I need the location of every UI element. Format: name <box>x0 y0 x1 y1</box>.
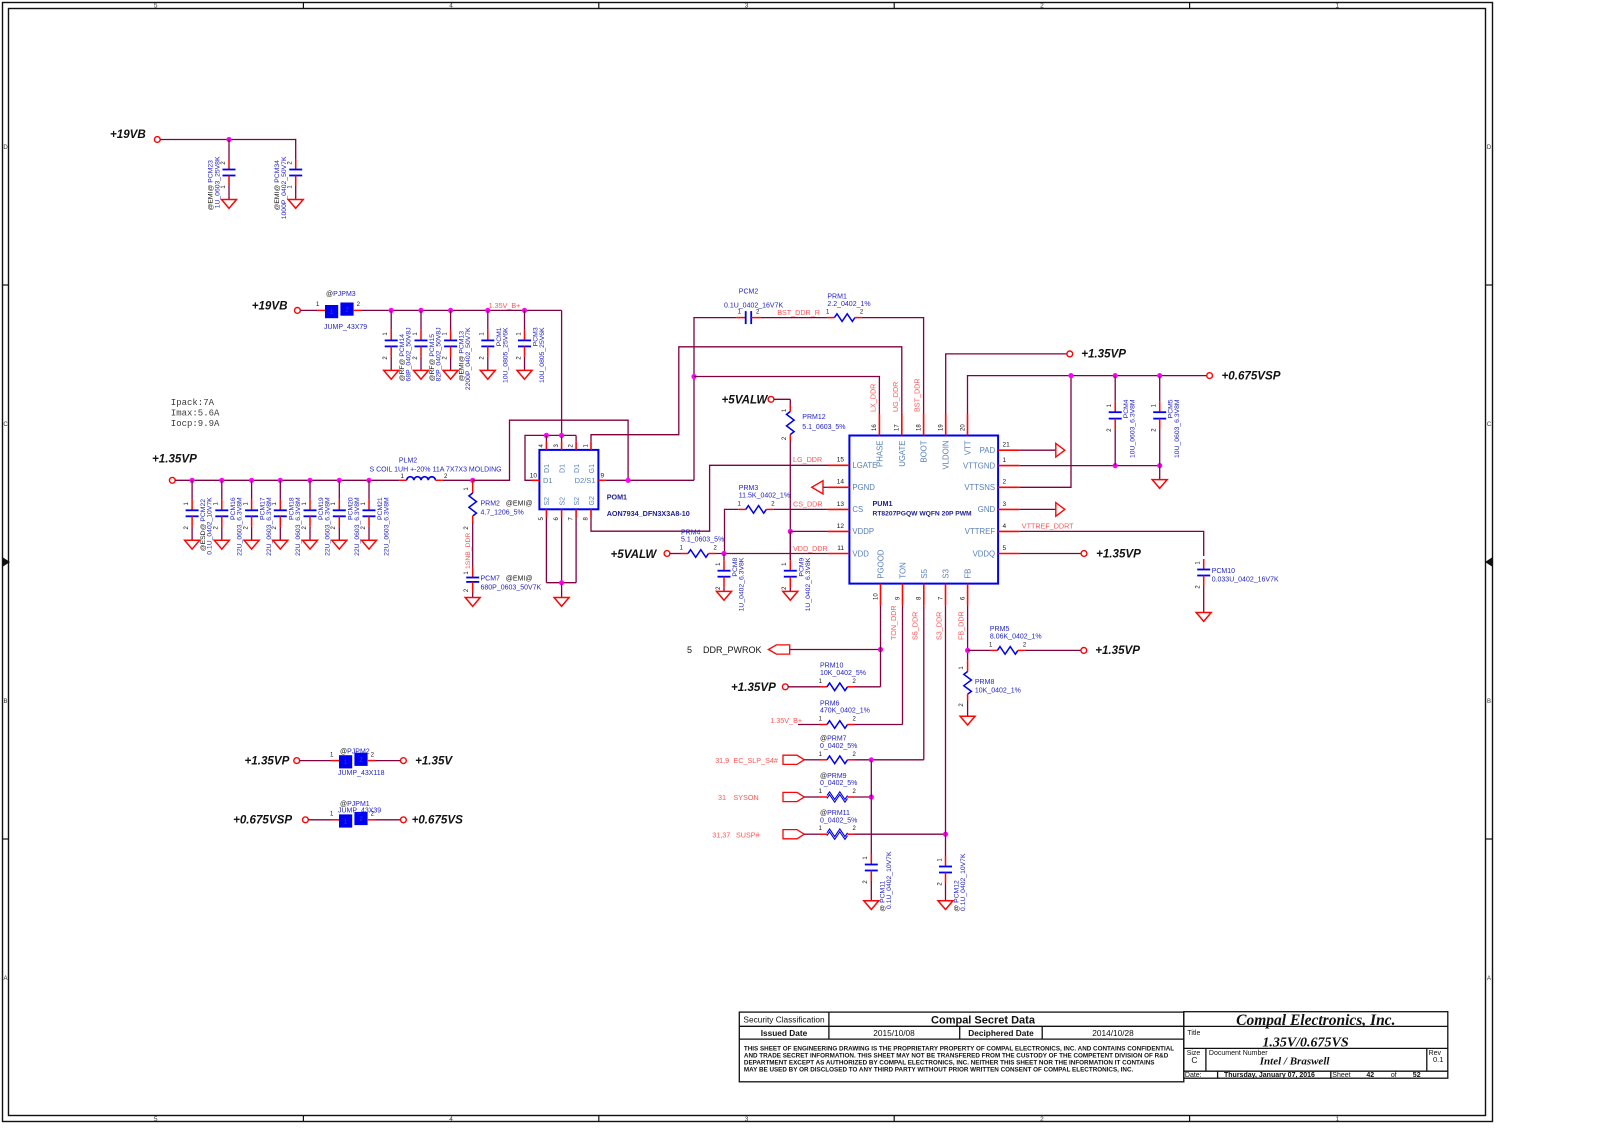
svg-text:5.1_0603_5%: 5.1_0603_5% <box>681 537 724 544</box>
svg-text:@PRM11: @PRM11 <box>820 810 850 817</box>
svg-text:D: D <box>1487 145 1492 151</box>
junction <box>1113 463 1118 468</box>
svg-text:3: 3 <box>745 1116 749 1123</box>
ground <box>332 540 347 549</box>
wire TON <box>902 605 904 724</box>
svg-text:CS: CS <box>852 505 863 514</box>
wire PCM9 branch <box>789 531 791 560</box>
ground <box>214 540 229 549</box>
svg-text:+1.35VP: +1.35VP <box>1095 644 1140 657</box>
capacitor PCM4 <box>1114 376 1116 402</box>
resistor PRM8 <box>967 660 969 671</box>
svg-text:11.5K_0402_1%: 11.5K_0402_1% <box>739 493 790 500</box>
svg-text:0.1U_0402_10V7K: 0.1U_0402_10V7K <box>207 497 214 555</box>
wire PGND arrow <box>823 486 828 488</box>
ground <box>288 200 303 209</box>
junction <box>307 478 312 483</box>
svg-text:Sheet: Sheet <box>1332 1072 1350 1079</box>
junction <box>522 308 527 313</box>
wire <box>443 479 473 481</box>
svg-text:Compal Secret Data: Compal Secret Data <box>931 1015 1036 1027</box>
svg-text:5: 5 <box>154 1116 158 1123</box>
wire D1 to pin10 <box>525 435 546 480</box>
transistor POM1 <box>539 450 598 509</box>
svg-text:PLM2: PLM2 <box>399 457 417 464</box>
capacitor PCM20 <box>338 480 340 500</box>
zone ticks top <box>302 3 304 9</box>
svg-text:+0.675VSP: +0.675VSP <box>1222 369 1281 382</box>
wire S2 to ground <box>545 517 547 583</box>
wire VTTGND <box>1020 465 1160 467</box>
svg-text:FB_DDR: FB_DDR <box>957 611 966 640</box>
svg-text:PGND: PGND <box>852 483 875 492</box>
zone ticks right <box>1486 284 1493 286</box>
svg-text:LG_DDR: LG_DDR <box>793 455 822 464</box>
ground <box>414 370 429 379</box>
svg-text:Intel / Braswell: Intel / Braswell <box>1259 1056 1331 1068</box>
svg-text:TON: TON <box>899 562 908 578</box>
capacitor PCM21 <box>368 480 370 500</box>
wire <box>300 760 331 762</box>
title block security table <box>739 1012 1184 1082</box>
svg-text:1.35V/0.675VS: 1.35V/0.675VS <box>1262 1035 1349 1050</box>
capacitor PCM18 <box>279 480 281 500</box>
svg-text:S2: S2 <box>559 497 566 506</box>
svg-text:4: 4 <box>449 1116 453 1123</box>
svg-text:Compal Electronics, Inc.: Compal Electronics, Inc. <box>1236 1012 1395 1029</box>
svg-text:VDD: VDD <box>852 549 869 558</box>
svg-text:G2: G2 <box>589 496 596 505</box>
svg-text:10: 10 <box>873 593 879 600</box>
svg-text:21: 21 <box>1003 442 1011 449</box>
svg-text:D2/S1: D2/S1 <box>575 476 596 485</box>
jumper PJPM2 <box>339 755 352 768</box>
junction <box>544 433 549 438</box>
svg-text:Issued Date: Issued Date <box>761 1028 808 1038</box>
capacitor PCM34 <box>295 140 297 160</box>
svg-text:12: 12 <box>837 523 845 530</box>
svg-text:2.2_0402_1%: 2.2_0402_1% <box>827 301 870 308</box>
svg-text:2: 2 <box>1003 479 1007 486</box>
svg-text:9: 9 <box>601 473 605 480</box>
svg-text:@PRM7: @PRM7 <box>820 736 847 743</box>
svg-text:22U_0603_6.3V8M: 22U_0603_6.3V8M <box>236 497 243 556</box>
junction <box>878 647 883 652</box>
svg-text:B: B <box>1487 699 1491 705</box>
wire LX <box>473 420 628 480</box>
svg-text:1U_0402_6.3V8K: 1U_0402_6.3V8K <box>739 557 746 611</box>
svg-text:15: 15 <box>837 457 845 464</box>
capacitor PCM23 <box>228 140 230 160</box>
svg-text:PRM2 @EMI@: PRM2 @EMI@ <box>481 501 533 508</box>
junction <box>943 832 948 837</box>
svg-text:POM1: POM1 <box>607 493 627 502</box>
junction <box>190 478 195 483</box>
svg-text:31,37: 31,37 <box>712 830 730 839</box>
junction <box>366 478 371 483</box>
svg-text:@PJPM3: @PJPM3 <box>326 291 356 298</box>
title block company block <box>1184 1012 1448 1078</box>
svg-text:S5_DDR: S5_DDR <box>911 612 920 640</box>
ground <box>1152 480 1167 489</box>
wire <box>670 553 681 555</box>
ground <box>938 901 953 910</box>
jumper PJPM1 <box>339 814 352 827</box>
svg-text:+1.35VP: +1.35VP <box>731 681 776 694</box>
capacitor PCM9 <box>789 531 791 560</box>
svg-text:Thursday, January 07, 2016: Thursday, January 07, 2016 <box>1224 1072 1315 1079</box>
junction <box>559 433 564 438</box>
svg-text:C: C <box>1487 422 1492 428</box>
wire VDDQ <box>1020 553 1081 555</box>
ground <box>185 540 200 549</box>
wire S5 <box>855 759 924 761</box>
svg-text:MAY BE USED BY OR DISCLOSED TO: MAY BE USED BY OR DISCLOSED TO ANY THIRD… <box>744 1066 1134 1073</box>
resistor PRM2 <box>472 480 474 493</box>
svg-text:14: 14 <box>837 479 845 486</box>
junction <box>721 551 726 556</box>
svg-text:31,9: 31,9 <box>715 756 729 765</box>
wire VDDP <box>789 441 791 531</box>
svg-text:S3_DDR: S3_DDR <box>935 612 944 640</box>
ground <box>273 540 288 549</box>
capacitor PCM5 <box>1159 376 1161 402</box>
wire D1 top <box>546 434 576 436</box>
svg-text:8.06K_0402_1%: 8.06K_0402_1% <box>990 634 1042 641</box>
junction <box>559 580 564 585</box>
svg-text:22U_0603_6.3V8M: 22U_0603_6.3V8M <box>384 497 391 556</box>
ground <box>517 370 532 379</box>
svg-text:11: 11 <box>837 545 844 552</box>
svg-text:PRM5: PRM5 <box>990 626 1010 633</box>
wire DDR_PWROK <box>790 649 881 651</box>
svg-text:20: 20 <box>960 424 966 431</box>
svg-text:AON7934_DFN3X3A8-10: AON7934_DFN3X3A8-10 <box>607 509 690 518</box>
wire <box>308 819 331 821</box>
svg-text:C: C <box>3 422 8 428</box>
svg-text:Title: Title <box>1187 1030 1200 1037</box>
junction <box>418 308 423 313</box>
wire +1.35VP rail <box>175 479 399 481</box>
wire PAD arrow <box>1020 449 1056 451</box>
capacitor PCM17 <box>251 480 253 500</box>
capacitor PCM10 <box>1203 559 1205 570</box>
svg-text:0.1U_0402_16V7K: 0.1U_0402_16V7K <box>724 302 783 309</box>
svg-text:JUMP_43X118: JUMP_43X118 <box>338 770 385 777</box>
ground <box>554 598 569 607</box>
svg-text:BOOT: BOOT <box>920 440 929 462</box>
svg-text:@EMI@ PCM34: @EMI@ PCM34 <box>274 160 281 211</box>
svg-text:10U_0805_25V6K: 10U_0805_25V6K <box>502 327 509 383</box>
capacitor PCM7 <box>472 567 474 578</box>
junction <box>470 478 475 483</box>
wire LX to PHASE <box>694 377 879 415</box>
svg-text:13: 13 <box>837 501 845 508</box>
svg-text:THIS SHEET OF ENGINEERING DRAW: THIS SHEET OF ENGINEERING DRAWING IS THE… <box>744 1045 1174 1052</box>
wire <box>855 724 903 726</box>
svg-text:0.033U_0402_16V7K: 0.033U_0402_16V7K <box>1212 577 1279 584</box>
wire VLDOIN <box>946 354 1067 414</box>
wire UGATE <box>591 347 902 442</box>
svg-text:of: of <box>1391 1072 1397 1079</box>
svg-text:10K_0402_1%: 10K_0402_1% <box>975 688 1021 695</box>
svg-text:1SNB_DDR: 1SNB_DDR <box>465 533 472 569</box>
capacitor PCM22 <box>191 480 193 500</box>
wire <box>804 759 820 761</box>
svg-text:D1: D1 <box>543 476 553 485</box>
svg-text:10: 10 <box>530 473 538 480</box>
svg-text:+5VALW: +5VALW <box>722 394 769 407</box>
junction <box>226 137 231 142</box>
svg-text:+1.35VP: +1.35VP <box>245 755 290 768</box>
svg-text:AND TRADE SECRET INFORMATION.: AND TRADE SECRET INFORMATION. THIS SHEET… <box>744 1052 1169 1059</box>
wire 1.35V_B+ trunk <box>561 310 563 435</box>
svg-text:+1.35VP: +1.35VP <box>152 453 197 466</box>
junction <box>448 308 453 313</box>
svg-text:1.35V_B+: 1.35V_B+ <box>489 301 521 310</box>
wire <box>855 796 872 798</box>
capacitor PCM12 <box>945 834 947 856</box>
wire <box>788 686 820 688</box>
ground <box>864 901 879 910</box>
svg-text:VTTGND: VTTGND <box>963 461 995 470</box>
wire S5 tie <box>870 760 872 797</box>
wire <box>472 523 474 567</box>
svg-text:22U_0603_6.3V8M: 22U_0603_6.3V8M <box>295 497 302 556</box>
svg-text:S COIL 1UH +-20% 11A 7X7X3 MOL: S COIL 1UH +-20% 11A 7X7X3 MOLDING <box>370 466 502 473</box>
svg-text:2200P_0402_50V7K: 2200P_0402_50V7K <box>465 327 472 390</box>
svg-text:EC_SLP_S4#: EC_SLP_S4# <box>734 756 778 765</box>
svg-text:1: 1 <box>1335 1116 1339 1123</box>
svg-text:0.1: 0.1 <box>1433 1055 1443 1064</box>
svg-text:52: 52 <box>1413 1072 1421 1079</box>
junction <box>626 478 631 483</box>
svg-text:0.1U_0402_10V7K: 0.1U_0402_10V7K <box>886 851 893 909</box>
junction <box>1157 373 1162 378</box>
svg-text:10U_0805_25V6K: 10U_0805_25V6K <box>539 327 546 383</box>
center marker arrow left <box>3 558 10 567</box>
wire S3 <box>855 833 946 835</box>
svg-text:4: 4 <box>1003 523 1007 530</box>
wire LX riser <box>694 318 736 481</box>
svg-text:VTT: VTT <box>964 440 973 455</box>
svg-text:0_0402_5%: 0_0402_5% <box>820 743 857 750</box>
jumper PJPM3 <box>325 305 338 318</box>
svg-text:+1.35VP: +1.35VP <box>1081 348 1126 361</box>
svg-text:5: 5 <box>154 3 158 10</box>
svg-text:4: 4 <box>449 3 453 10</box>
ground <box>783 591 798 600</box>
center marker arrow right <box>1485 558 1492 567</box>
svg-text:@PJPM2: @PJPM2 <box>340 749 370 756</box>
capacitor PCM1 <box>487 310 489 330</box>
svg-text:CS_DDR: CS_DDR <box>793 499 823 508</box>
svg-text:22U_0603_6.3V8M: 22U_0603_6.3V8M <box>354 497 361 556</box>
svg-text:10U_0603_6.3V8M: 10U_0603_6.3V8M <box>1130 399 1137 458</box>
svg-text:+19VB: +19VB <box>252 300 288 313</box>
svg-text:DEPARTMENT EXCEPT AS AUTHORIZE: DEPARTMENT EXCEPT AS AUTHORIZED BY COMPA… <box>744 1059 1155 1066</box>
svg-text:680P_0603_50V7K: 680P_0603_50V7K <box>481 585 542 592</box>
wire <box>967 701 969 717</box>
svg-text:VDDQ: VDDQ <box>973 549 996 558</box>
wire BOOT <box>862 318 924 414</box>
wire VTTSNS <box>1020 376 1071 488</box>
svg-text:JUMP_43X39: JUMP_43X39 <box>338 807 381 814</box>
svg-text:PRM1: PRM1 <box>827 293 847 300</box>
junction <box>1113 373 1118 378</box>
svg-text:C: C <box>1191 1055 1197 1065</box>
svg-text:LGATE: LGATE <box>852 461 877 470</box>
junction <box>278 478 283 483</box>
svg-text:G1: G1 <box>589 464 596 473</box>
ground <box>222 200 237 209</box>
svg-text:B: B <box>3 699 7 705</box>
wire <box>354 309 362 311</box>
junction <box>389 308 394 313</box>
capacitor PCM15 <box>420 310 422 330</box>
svg-text:Deciphered Date: Deciphered Date <box>968 1028 1034 1038</box>
svg-text:PRM10: PRM10 <box>820 663 843 670</box>
junction <box>219 478 224 483</box>
wire <box>773 508 828 510</box>
svg-text:1: 1 <box>1003 457 1007 464</box>
svg-text:16: 16 <box>872 424 878 431</box>
svg-text:PCM2: PCM2 <box>739 289 759 296</box>
wire VTT +0.675VSP rail <box>968 376 1207 414</box>
svg-text:5: 5 <box>1003 545 1007 552</box>
wire <box>160 139 296 141</box>
wire pin9 LX <box>606 479 694 481</box>
ground <box>465 598 480 607</box>
svg-text:LX_DDR: LX_DDR <box>869 384 878 412</box>
svg-text:PRM6: PRM6 <box>820 700 840 707</box>
svg-text:2: 2 <box>1040 3 1044 10</box>
svg-text:@EMI@ PCM23: @EMI@ PCM23 <box>208 160 215 211</box>
junction <box>965 648 970 653</box>
wire G2 LGATE <box>591 465 842 531</box>
svg-text:5.1_0603_5%: 5.1_0603_5% <box>802 424 845 431</box>
svg-text:D1: D1 <box>574 464 581 473</box>
svg-text:FB: FB <box>964 569 973 579</box>
svg-text:UG_DDR: UG_DDR <box>891 382 900 412</box>
capacitor PCM8 <box>723 554 725 561</box>
svg-text:1U_0603_25V8K: 1U_0603_25V8K <box>215 156 222 208</box>
wire <box>804 833 820 835</box>
svg-text:PRM8: PRM8 <box>975 679 995 686</box>
svg-text:S5: S5 <box>920 568 929 578</box>
svg-text:D1: D1 <box>559 464 566 473</box>
ground <box>362 540 377 549</box>
svg-text:2015/10/08: 2015/10/08 <box>873 1028 915 1038</box>
ground <box>384 370 399 379</box>
svg-text:PUM1: PUM1 <box>873 499 893 508</box>
wire <box>804 796 820 798</box>
svg-text:UGATE: UGATE <box>898 441 907 467</box>
svg-text:+5VALW: +5VALW <box>611 548 658 561</box>
capacitor PCM16 <box>221 480 223 500</box>
svg-text:5: 5 <box>687 645 692 655</box>
svg-text:1U_0402_6.3V8K: 1U_0402_6.3V8K <box>805 557 812 611</box>
wire GND arrow <box>1020 508 1056 510</box>
svg-text:A: A <box>1487 976 1491 982</box>
svg-text:@PRM9: @PRM9 <box>820 773 847 780</box>
wire <box>968 649 991 651</box>
svg-text:470K_0402_1%: 470K_0402_1% <box>820 708 870 715</box>
capacitor PCM11 <box>870 797 872 854</box>
capacitor PCM19 <box>309 480 311 500</box>
svg-text:1000P_0402_50V7K: 1000P_0402_50V7K <box>281 156 288 219</box>
wire <box>368 760 376 762</box>
junction <box>249 478 254 483</box>
svg-text:2014/10/28: 2014/10/28 <box>1092 1028 1134 1038</box>
ground <box>960 716 975 725</box>
svg-text:1: 1 <box>1335 3 1339 10</box>
svg-text:VTTSNS: VTTSNS <box>964 483 995 492</box>
svg-text:PCM10: PCM10 <box>1212 568 1235 575</box>
svg-text:VDD_DDR: VDD_DDR <box>793 544 828 553</box>
zone ticks bottom <box>302 1116 304 1122</box>
svg-text:+0.675VS: +0.675VS <box>412 814 464 827</box>
svg-text:0_0402_5%: 0_0402_5% <box>820 780 857 787</box>
svg-text:PCM7 @EMI@: PCM7 @EMI@ <box>481 576 533 583</box>
wire FB <box>967 605 969 660</box>
wire PGOOD <box>880 605 882 687</box>
svg-text:S2: S2 <box>544 497 551 506</box>
wire CS <box>725 509 739 553</box>
junction <box>1068 373 1073 378</box>
svg-text:10K_0402_5%: 10K_0402_5% <box>820 670 866 677</box>
svg-text:D1: D1 <box>544 464 551 473</box>
wire VDD <box>716 553 828 555</box>
svg-text:3: 3 <box>745 3 749 10</box>
svg-text:0.1U_0402_10V7K: 0.1U_0402_10V7K <box>960 853 967 911</box>
svg-text:Iocp:9.9A: Iocp:9.9A <box>171 419 220 429</box>
svg-text:DDR_PWROK: DDR_PWROK <box>703 645 762 655</box>
svg-text:VTTREF_DDRT: VTTREF_DDRT <box>1022 522 1074 531</box>
ground <box>443 370 458 379</box>
svg-text:PRM3: PRM3 <box>739 485 759 492</box>
ground <box>717 591 732 600</box>
svg-text:BST_DDR: BST_DDR <box>913 378 922 412</box>
svg-text:1.35V_B+: 1.35V_B+ <box>770 716 802 725</box>
svg-text:VDDP: VDDP <box>852 527 874 536</box>
ground <box>303 540 318 549</box>
junction <box>485 308 490 313</box>
svg-text:JUMP_43X79: JUMP_43X79 <box>324 324 367 331</box>
svg-text:17: 17 <box>895 424 901 431</box>
svg-text:Date:: Date: <box>1185 1072 1202 1079</box>
svg-text:A: A <box>3 976 7 982</box>
junction <box>691 374 696 379</box>
svg-text:S3: S3 <box>942 569 951 579</box>
capacitor PCM13 <box>450 310 452 330</box>
wire <box>855 686 881 688</box>
ground <box>244 540 259 549</box>
wire <box>300 309 317 311</box>
zone ticks left <box>3 284 9 286</box>
svg-text:S2: S2 <box>574 497 581 506</box>
svg-text:PRM4: PRM4 <box>681 529 701 536</box>
capacitor PCM3 <box>524 310 526 330</box>
svg-text:D: D <box>3 145 8 151</box>
ground <box>1196 613 1211 622</box>
capacitor PCM14 <box>390 310 392 330</box>
svg-text:TON_DDR: TON_DDR <box>889 605 898 640</box>
svg-text:PAD: PAD <box>980 446 996 455</box>
svg-text:68P_0402_50V8J: 68P_0402_50V8J <box>406 327 413 381</box>
svg-text:GND: GND <box>978 505 996 514</box>
junction <box>869 794 874 799</box>
